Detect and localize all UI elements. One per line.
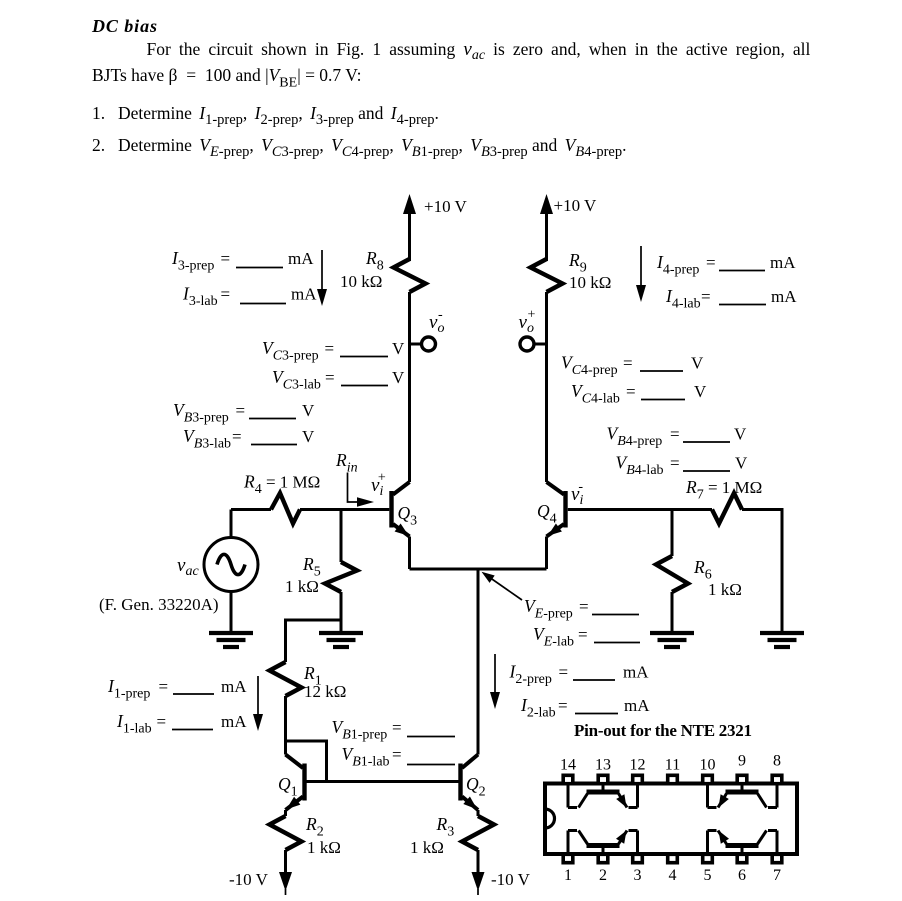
svg-text:10: 10: [700, 757, 716, 774]
pin 9: [737, 775, 747, 783]
svg-text:11: 11: [665, 757, 680, 774]
svg-text:1 kΩ: 1 kΩ: [285, 577, 319, 596]
svg-text:I4-prep=mA: I4-prep=mA: [656, 252, 796, 278]
svg-text:BJTs have β = 100 and |VBE|: BJTs have β = 100 and |VBE| = 0.7 V:: [92, 65, 361, 91]
pin 11: [668, 775, 678, 783]
svg-text:2.Determine VE-prep, VC3-prep,: 2.Determine VE-prep, VC3-prep, VC4-prep,…: [92, 135, 626, 160]
ground under R6: [650, 633, 694, 647]
IC transistor bottom-left (pins 1-2-3): [568, 831, 638, 853]
svg-text:I3-prep=mA: I3-prep=mA: [171, 248, 314, 274]
resistor R7: [712, 493, 742, 524]
svg-text:1 kΩ: 1 kΩ: [708, 580, 742, 599]
svg-text:13: 13: [595, 757, 611, 774]
svg-text:10 kΩ: 10 kΩ: [569, 273, 611, 292]
power +10 V right: [540, 194, 597, 261]
svg-text:VB1-lab=: VB1-lab=: [342, 744, 402, 770]
power +10 V left: [403, 194, 468, 261]
wire tail to Q2 collector: [477, 569, 480, 755]
wire Q1 base to Q2 base: [307, 780, 459, 783]
resistor R2: [270, 810, 341, 857]
svg-text:VB3-prep=V: VB3-prep=V: [173, 400, 315, 426]
pin 14: [563, 775, 573, 783]
supply -10 V right: [472, 850, 531, 895]
ground right of R7: [760, 633, 804, 647]
pin 1: [563, 854, 573, 862]
svg-text:R6: R6: [693, 557, 712, 583]
pin 13: [598, 775, 608, 783]
svg-text:vo-: vo-: [429, 308, 444, 337]
svg-text:1: 1: [564, 867, 572, 884]
wire ground jog to R1: [286, 620, 342, 662]
ground under vac: [209, 633, 253, 647]
svg-text:VB1-prep=: VB1-prep=: [332, 717, 402, 743]
resistor R5: [285, 510, 357, 632]
svg-text:(F. Gen. 33220A): (F. Gen. 33220A): [99, 595, 219, 614]
resistor R6: [656, 510, 742, 632]
wire R7 to right ground drop: [742, 510, 782, 632]
IC transistor bottom-right (pins 5-6-7): [708, 831, 778, 853]
current arrow I2: [490, 654, 500, 709]
resistor R4: [271, 493, 300, 524]
wire R4 to base node: [300, 508, 389, 511]
svg-text:1 kΩ: 1 kΩ: [307, 838, 341, 857]
svg-text:R7 = 1 MΩ: R7 = 1 MΩ: [685, 477, 762, 503]
svg-text:I2-lab=mA: I2-lab=mA: [520, 695, 650, 721]
transistor Q1: [278, 755, 305, 811]
transistor Q3: [392, 482, 418, 537]
wire R8 to Q3 collector: [408, 292, 411, 482]
IC transistor top-right (pins 10-9-8): [708, 786, 778, 808]
svg-text:7: 7: [773, 867, 781, 884]
current arrow I4: [636, 246, 646, 302]
svg-text:Q2: Q2: [466, 774, 486, 800]
svg-text:I1-lab=mA: I1-lab=mA: [116, 711, 247, 737]
svg-text:VC3-lab=V: VC3-lab=V: [272, 367, 405, 393]
svg-text:R5: R5: [302, 554, 321, 580]
current arrow I3: [317, 250, 327, 306]
pin 4: [668, 854, 678, 862]
ground under R5: [319, 633, 363, 647]
transistor Q4: [537, 482, 566, 537]
resistor R3: [410, 810, 494, 857]
svg-text:R2: R2: [305, 814, 324, 840]
svg-text:+10 V: +10 V: [424, 197, 468, 216]
svg-text:1 kΩ: 1 kΩ: [410, 838, 444, 857]
svg-text:Q1: Q1: [278, 774, 298, 800]
current arrow I1: [253, 676, 263, 731]
svg-text:Pin-out for the NTE 2321: Pin-out for the NTE 2321: [574, 721, 752, 740]
wire Q1 collector-base tie: [286, 741, 327, 782]
svg-text:DC bias: DC bias: [91, 16, 157, 36]
wire vac to R4: [231, 508, 271, 511]
svg-text:5: 5: [704, 867, 712, 884]
svg-text:R9: R9: [568, 250, 587, 276]
svg-text:8: 8: [773, 753, 781, 770]
resistor R9: [531, 250, 612, 292]
svg-text:I3-lab=mA: I3-lab=mA: [182, 284, 317, 310]
node vo+ output terminal: [519, 308, 547, 352]
IC body NTE 2321: [545, 784, 797, 855]
svg-text:10 kΩ: 10 kΩ: [340, 272, 382, 291]
svg-text:VC4-lab=V: VC4-lab=V: [571, 381, 707, 407]
svg-text:12: 12: [630, 757, 646, 774]
wire emitter bus: [410, 568, 547, 571]
wire Q4 base to R6/R7: [568, 508, 672, 511]
svg-text:12 kΩ: 12 kΩ: [304, 682, 346, 701]
svg-text:VB4-lab=V: VB4-lab=V: [616, 453, 749, 479]
svg-text:I1-prep=mA: I1-prep=mA: [107, 676, 247, 702]
arrow VE pointing at tail node: [482, 572, 523, 600]
source vac: [99, 510, 258, 632]
IC transistor top-left (pins 14-13-12): [568, 786, 638, 808]
svg-text:2: 2: [599, 867, 607, 884]
svg-text:vi-: vi-: [571, 480, 583, 509]
transistor Q2: [461, 755, 486, 811]
svg-text:4: 4: [669, 867, 677, 884]
svg-text:+10 V: +10 V: [554, 196, 598, 215]
svg-text:Q4: Q4: [537, 501, 557, 527]
wire R9 to Q4 collector: [545, 292, 548, 482]
wire Q4 emitter down: [545, 537, 548, 570]
svg-text:R3: R3: [436, 814, 455, 840]
svg-text:6: 6: [738, 867, 746, 884]
svg-text:-10 V: -10 V: [229, 870, 269, 889]
svg-text:1.Determine I1-prep, I2-prep,: 1.Determine I1-prep, I2-prep, I3-prep an…: [92, 103, 439, 128]
svg-text:vac: vac: [177, 555, 199, 579]
svg-text:9: 9: [738, 753, 746, 770]
svg-text:-10 V: -10 V: [491, 870, 531, 889]
svg-text:vi+: vi+: [371, 471, 386, 500]
pin 3: [633, 854, 643, 862]
wire Q3 emitter down: [408, 537, 411, 570]
pin 5: [703, 854, 713, 862]
svg-text:14: 14: [560, 757, 576, 774]
resistor R8: [340, 248, 426, 292]
svg-text:VB3-lab=V: VB3-lab=V: [183, 426, 315, 452]
svg-text:VC4-prep=V: VC4-prep=V: [561, 353, 704, 379]
node vo- output terminal: [410, 308, 445, 352]
svg-text:For the circuit shown in Fig.: For the circuit shown in Fig. 1 assuming…: [147, 39, 811, 63]
svg-text:I2-prep=mA: I2-prep=mA: [509, 662, 650, 688]
wire R1 to Q1 collector: [284, 696, 287, 755]
resistor R1: [270, 662, 347, 701]
IC notch: [545, 809, 555, 828]
svg-text:vo+: vo+: [519, 308, 536, 337]
pin 10: [703, 775, 713, 783]
svg-text:VC3-prep=V: VC3-prep=V: [262, 338, 405, 364]
pin 2: [598, 854, 608, 862]
pin 7: [772, 854, 782, 862]
svg-text:R8: R8: [365, 248, 384, 274]
svg-text:I4-lab=mA: I4-lab=mA: [665, 286, 797, 312]
svg-text:VB4-prep=V: VB4-prep=V: [607, 424, 748, 450]
pin 12: [633, 775, 643, 783]
arrow Rin pointing to base node: [348, 473, 375, 507]
svg-text:3: 3: [634, 867, 642, 884]
supply -10 V left: [229, 850, 292, 895]
svg-text:Rin: Rin: [335, 450, 358, 476]
svg-text:VE-prep=: VE-prep=: [524, 596, 589, 622]
pin 6: [737, 854, 747, 862]
pin 8: [772, 775, 782, 783]
svg-text:VE-lab=: VE-lab=: [533, 624, 588, 650]
